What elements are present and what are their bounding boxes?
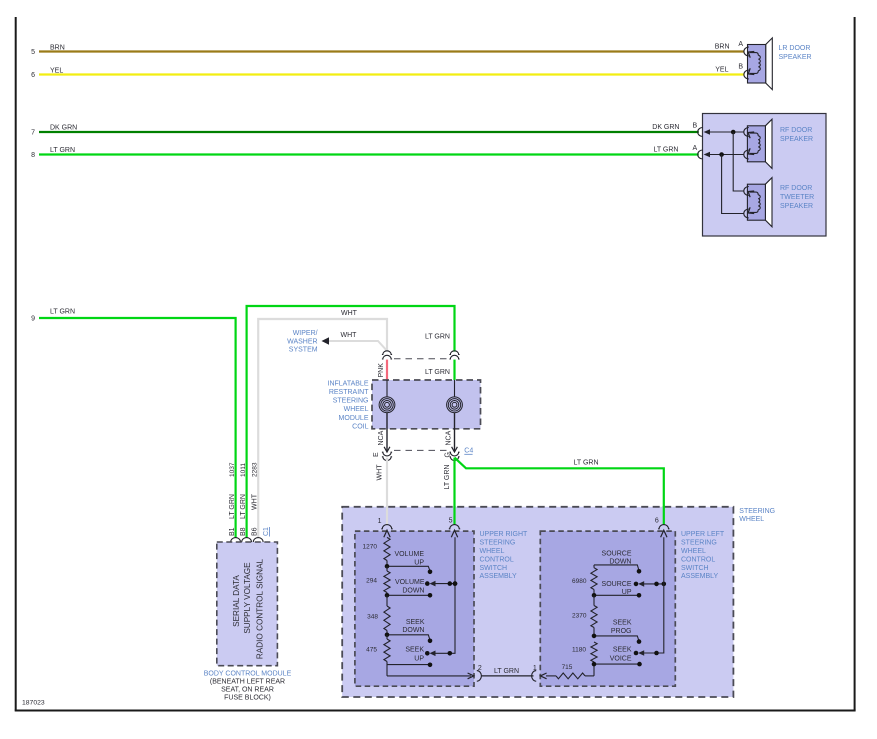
switch SEEK VOICE arm — [634, 537, 664, 656]
svg-text:UP: UP — [414, 559, 424, 566]
svg-text:LT GRN: LT GRN — [425, 369, 450, 376]
svg-text:294: 294 — [366, 578, 377, 585]
RF module connector A — [698, 150, 710, 159]
svg-text:LT GRN: LT GRN — [653, 147, 678, 154]
label SOURCE DOWN — [602, 551, 632, 566]
svg-text:5: 5 — [449, 517, 453, 524]
svg-text:YEL: YEL — [50, 67, 63, 74]
svg-text:FUSE BLOCK): FUSE BLOCK) — [224, 695, 271, 702]
RF door speaker — [744, 119, 772, 168]
switch SEEK PROG upper contact — [592, 634, 642, 644]
resistor 1180 — [572, 642, 597, 664]
svg-text:B: B — [693, 123, 698, 130]
label STEERING WHEEL — [739, 508, 775, 523]
svg-text:1270: 1270 — [363, 544, 378, 551]
resistor 2370 — [572, 595, 597, 636]
in-line connector right (LT GRN) — [449, 351, 459, 359]
svg-text:WHEEL: WHEEL — [480, 548, 505, 555]
wire 6 YEL to LR door speaker B — [31, 64, 744, 80]
svg-text:348: 348 — [367, 614, 378, 621]
svg-text:187023: 187023 — [22, 700, 45, 707]
svg-text:VOICE: VOICE — [610, 656, 632, 663]
svg-text:STEERING: STEERING — [333, 398, 369, 405]
in-line connector left (WHT/PNK) — [382, 351, 392, 359]
wire to tweeter + — [733, 132, 744, 191]
resistor 294 — [366, 566, 390, 595]
svg-text:LR DOOR: LR DOOR — [779, 45, 811, 52]
svg-text:2283: 2283 — [251, 462, 258, 477]
coil spiral right — [447, 397, 463, 413]
svg-text:A: A — [693, 145, 698, 152]
wire LT GRN jumper — [482, 668, 534, 676]
BCM connector pin B8 — [241, 538, 252, 542]
svg-text:B1: B1 — [229, 527, 236, 536]
svg-text:COIL: COIL — [352, 423, 368, 430]
svg-text:LT GRN: LT GRN — [50, 309, 75, 316]
label SEEK PROG — [611, 620, 632, 635]
label BODY CONTROL MODULE caption — [204, 671, 292, 702]
switch VOLUME arm — [425, 581, 457, 587]
BCM connector pin B6 — [253, 538, 264, 542]
svg-text:6: 6 — [655, 518, 659, 525]
svg-text:STEERING: STEERING — [681, 540, 717, 547]
svg-text:BRN: BRN — [50, 44, 65, 51]
svg-text:C1: C1 — [263, 527, 270, 536]
svg-text:1180: 1180 — [572, 647, 586, 654]
svg-text:WHEEL: WHEEL — [739, 516, 764, 523]
svg-text:B6: B6 — [251, 527, 258, 536]
connector 5 — [449, 517, 461, 537]
upper right steering wheel control switch assembly box — [355, 531, 474, 686]
upper left steering wheel control switch assembly box — [540, 531, 675, 686]
svg-text:WASHER: WASHER — [287, 338, 317, 345]
svg-text:PROG: PROG — [611, 628, 632, 635]
junction dot A — [719, 152, 724, 157]
wire WHT to connector 1 — [376, 458, 387, 525]
svg-text:SEEK: SEEK — [406, 619, 425, 626]
svg-text:SWITCH: SWITCH — [681, 565, 709, 572]
connector 1 — [378, 518, 393, 537]
label VOLUME DOWN — [395, 579, 425, 594]
RF module connector B — [698, 128, 710, 137]
svg-text:WHT: WHT — [251, 493, 258, 510]
svg-text:7: 7 — [31, 130, 35, 137]
svg-text:6980: 6980 — [572, 578, 587, 585]
svg-text:UPPER LEFT: UPPER LEFT — [681, 531, 725, 538]
label INFLATABLE RESTRAINT STEERING WHEEL MODULE COIL — [328, 380, 370, 430]
svg-text:WHT: WHT — [376, 464, 383, 481]
RF door tweeter speaker — [744, 178, 772, 227]
wire RF module internal B — [709, 131, 744, 133]
wire PNK segment — [378, 360, 387, 380]
svg-text:1037: 1037 — [229, 462, 236, 477]
switch VOLUME DOWN lower contact — [385, 593, 433, 598]
svg-text:5: 5 — [31, 49, 35, 56]
svg-text:DOWN: DOWN — [402, 627, 424, 634]
connector C4 terminal E — [373, 447, 392, 461]
svg-text:LT GRN: LT GRN — [444, 465, 451, 490]
svg-text:(BENEATH LEFT REAR: (BENEATH LEFT REAR — [210, 679, 285, 686]
svg-text:SYSTEM: SYSTEM — [289, 347, 318, 354]
label WIPER/WASHER SYSTEM — [287, 330, 318, 354]
svg-text:MODULE: MODULE — [339, 415, 369, 422]
svg-text:E: E — [373, 452, 380, 457]
inflatable restraint steering wheel module coil box — [372, 380, 481, 429]
svg-text:INFLATABLE: INFLATABLE — [328, 380, 369, 387]
svg-text:1: 1 — [378, 518, 382, 525]
wire chain bottom left assembly — [593, 664, 595, 676]
coil left terminal wire — [386, 380, 388, 397]
wire 5 BRN to LR door speaker A — [31, 41, 744, 56]
svg-text:STEERING: STEERING — [480, 540, 516, 547]
svg-text:C4: C4 — [464, 448, 473, 455]
svg-text:WHEEL: WHEEL — [344, 406, 369, 413]
svg-text:UP: UP — [414, 655, 424, 662]
LR door speaker — [744, 38, 772, 90]
coil right terminal wire — [454, 380, 456, 397]
wire LT GRN circuit 1011 BCM B8 to connector — [247, 306, 455, 538]
label SEEK VOICE — [610, 647, 632, 663]
resistor 6980 — [572, 565, 597, 595]
label RF DOOR SPEAKER — [780, 127, 813, 143]
svg-text:NCA: NCA — [378, 430, 385, 445]
svg-text:CONTROL: CONTROL — [681, 556, 715, 563]
wire 9 LT GRN circuit 1037 to BCM B1 — [31, 309, 236, 538]
svg-text:YEL: YEL — [715, 66, 728, 73]
switch SEEK VOICE lower contact — [592, 662, 642, 667]
svg-text:LT GRN: LT GRN — [229, 494, 236, 519]
wire to tweeter - — [722, 155, 744, 214]
connector 2 — [477, 665, 482, 681]
switch SOURCE DOWN upper contact — [594, 565, 641, 574]
svg-text:9: 9 — [31, 316, 35, 323]
svg-text:SPEAKER: SPEAKER — [780, 203, 813, 210]
svg-text:DOWN: DOWN — [402, 587, 424, 594]
svg-text:PNK: PNK — [378, 363, 385, 378]
connector row dashed line — [394, 358, 448, 360]
resistor 475 — [366, 635, 390, 676]
svg-text:SWITCH: SWITCH — [480, 565, 508, 572]
svg-text:RESTRAINT: RESTRAINT — [329, 389, 369, 396]
svg-text:G: G — [444, 452, 451, 457]
label RF DOOR TWEETER SPEAKER — [780, 185, 814, 210]
label SOURCE UP — [602, 581, 632, 596]
switch SEEK DOWN upper contact — [385, 633, 433, 644]
svg-text:WHEEL: WHEEL — [681, 548, 706, 555]
svg-text:A: A — [738, 41, 743, 48]
svg-text:VOLUME: VOLUME — [395, 579, 425, 586]
svg-text:UPPER RIGHT: UPPER RIGHT — [480, 531, 529, 538]
BCM connector pin B1 — [230, 538, 241, 542]
switch SEEK UP lower contact — [387, 663, 432, 668]
svg-text:6: 6 — [31, 72, 35, 79]
wire WHT circuit 2283 BCM B6 to connector — [258, 319, 387, 538]
svg-text:SOURCE: SOURCE — [602, 581, 632, 588]
svg-text:SEEK: SEEK — [613, 620, 632, 627]
svg-text:TWEETER: TWEETER — [780, 194, 814, 201]
label UPPER RIGHT STEERING WHEEL CONTROL SWITCH ASSEMBLY — [480, 531, 529, 580]
svg-text:B: B — [738, 64, 743, 71]
svg-text:SEEK: SEEK — [405, 647, 424, 654]
svg-text:RF DOOR: RF DOOR — [780, 127, 812, 134]
label VOLUME UP — [394, 551, 424, 566]
label SEEK UP — [405, 647, 424, 663]
svg-text:DOWN: DOWN — [609, 559, 631, 566]
connector C4 terminal G — [444, 447, 459, 461]
svg-text:NCA: NCA — [445, 430, 452, 445]
connector C1 label — [263, 527, 270, 537]
junction dot B — [731, 130, 736, 135]
connector 6 — [655, 518, 670, 538]
wire assembly output to connector 2 — [387, 673, 474, 679]
svg-text:715: 715 — [562, 664, 573, 671]
wire RF module internal A — [709, 154, 744, 156]
label C4 — [464, 448, 473, 455]
svg-text:LT GRN: LT GRN — [494, 668, 519, 675]
svg-text:2: 2 — [478, 665, 482, 672]
svg-text:8: 8 — [31, 152, 35, 159]
wire LT GRN segment below connector — [425, 360, 455, 380]
coil right lower wire — [454, 413, 456, 451]
svg-text:STEERING: STEERING — [739, 508, 775, 515]
svg-text:SEEK: SEEK — [613, 647, 632, 654]
svg-text:ASSEMBLY: ASSEMBLY — [681, 573, 719, 580]
wire LT GRN to connector 5 — [444, 458, 455, 525]
connector 1 (left assembly) — [532, 665, 547, 681]
resistor 715 — [546, 664, 594, 679]
svg-text:DK GRN: DK GRN — [50, 124, 77, 131]
svg-text:WIPER/: WIPER/ — [293, 330, 318, 337]
coil left lower wire — [386, 413, 388, 451]
svg-text:CONTROL: CONTROL — [480, 556, 514, 563]
wire WHT branch to wiper/washer system — [322, 332, 388, 351]
svg-text:SPEAKER: SPEAKER — [779, 54, 812, 61]
svg-text:B8: B8 — [240, 527, 247, 536]
connector C4 dashed line — [394, 449, 448, 451]
resistor 348 — [367, 595, 390, 635]
label SEEK DOWN — [402, 619, 424, 634]
svg-text:475: 475 — [366, 647, 377, 654]
svg-text:LT GRN: LT GRN — [573, 460, 598, 467]
svg-text:ASSEMBLY: ASSEMBLY — [480, 573, 518, 580]
switch SOURCE arm — [634, 581, 666, 587]
wire tails over box — [386, 506, 388, 525]
label UPPER LEFT STEERING WHEEL CONTROL SWITCH ASSEMBLY — [681, 531, 725, 580]
svg-text:WHT: WHT — [341, 310, 358, 317]
wire LT GRN branch to connector 6 — [455, 458, 664, 525]
svg-text:SERIAL DATA: SERIAL DATA — [232, 575, 241, 627]
svg-text:WHT: WHT — [341, 332, 358, 339]
svg-text:SPEAKER: SPEAKER — [780, 136, 813, 143]
svg-text:LT GRN: LT GRN — [240, 494, 247, 519]
wire 8 LT GRN to RF door speaker A — [31, 145, 699, 159]
svg-text:VOLUME: VOLUME — [394, 551, 424, 558]
svg-text:2370: 2370 — [572, 613, 587, 620]
coil spiral left — [379, 397, 395, 413]
svg-text:LT GRN: LT GRN — [50, 147, 75, 154]
svg-text:BRN: BRN — [715, 44, 730, 51]
svg-text:RADIO CONTROL SIGNAL: RADIO CONTROL SIGNAL — [255, 558, 264, 659]
svg-text:SOURCE: SOURCE — [602, 551, 632, 558]
resistor 1270 — [363, 537, 391, 566]
steering wheel box — [342, 507, 733, 697]
svg-text:RF DOOR: RF DOOR — [780, 185, 812, 192]
svg-text:SUPPLY VOLTAGE: SUPPLY VOLTAGE — [243, 562, 252, 634]
switch VOLUME UP upper contact — [385, 564, 433, 574]
RF door speaker module box — [703, 114, 827, 237]
switch SOURCE UP lower contact — [592, 593, 642, 598]
svg-text:1011: 1011 — [240, 463, 247, 477]
wire 7 DK GRN to RF door speaker B — [31, 123, 699, 137]
svg-text:SEAT, ON REAR: SEAT, ON REAR — [221, 687, 274, 694]
body control module box — [217, 542, 278, 666]
wire vertical from connector 5 junction — [453, 581, 458, 586]
svg-text:BODY CONTROL MODULE: BODY CONTROL MODULE — [204, 671, 292, 678]
svg-text:DK GRN: DK GRN — [652, 124, 679, 131]
svg-text:1: 1 — [533, 665, 537, 672]
label LR DOOR SPEAKER — [779, 45, 812, 61]
svg-text:LT GRN: LT GRN — [425, 333, 450, 340]
switch SEEK arm — [425, 537, 455, 656]
